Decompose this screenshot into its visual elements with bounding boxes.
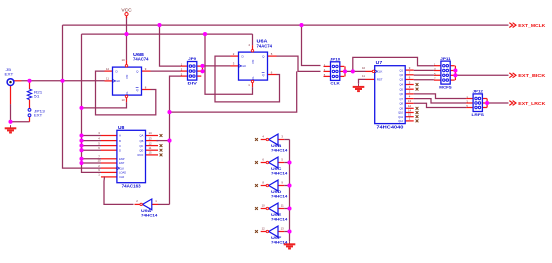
svg-text:10: 10 <box>262 203 266 207</box>
svg-text:EXT: EXT <box>5 72 14 77</box>
svg-text:JP9: JP9 <box>188 57 196 61</box>
svg-text:74HC14: 74HC14 <box>271 193 288 198</box>
svg-text:RCO: RCO <box>138 153 144 157</box>
svg-text:U8: U8 <box>118 125 125 130</box>
svg-text:VCC: VCC <box>121 7 131 12</box>
svg-text:LRFS: LRFS <box>472 112 485 117</box>
svg-text:12: 12 <box>262 226 266 230</box>
svg-text:74HC14: 74HC14 <box>271 216 288 221</box>
svg-text:51: 51 <box>34 95 39 99</box>
svg-text:CLK: CLK <box>241 64 247 68</box>
svg-text:11: 11 <box>362 74 365 78</box>
svg-text:QC: QC <box>139 144 143 148</box>
svg-text:PR: PR <box>251 60 255 64</box>
svg-text:10: 10 <box>97 159 101 163</box>
svg-text:JP10: JP10 <box>330 58 341 62</box>
svg-text:EXT_BICK: EXT_BICK <box>518 73 546 78</box>
svg-text:QA: QA <box>140 134 144 138</box>
svg-text:74HC14: 74HC14 <box>271 147 288 152</box>
svg-text:LOAD: LOAD <box>119 171 126 175</box>
svg-text:CLK: CLK <box>330 81 339 86</box>
svg-text:13: 13 <box>281 226 285 230</box>
svg-text:MCFS: MCFS <box>439 84 452 89</box>
svg-text:10: 10 <box>362 66 366 70</box>
svg-text:RST: RST <box>377 78 383 82</box>
svg-text:JP11: JP11 <box>440 57 451 61</box>
svg-text:Q12: Q12 <box>398 119 403 123</box>
svg-text:13: 13 <box>148 136 152 140</box>
svg-text:QB: QB <box>140 139 144 143</box>
svg-text:CLR: CLR <box>119 175 124 179</box>
svg-text:13: 13 <box>121 98 125 102</box>
svg-text:CLK: CLK <box>377 70 383 74</box>
svg-text:PR: PR <box>125 75 129 79</box>
svg-text:74AC74: 74AC74 <box>133 57 149 62</box>
svg-text:CLK: CLK <box>119 166 124 170</box>
svg-text:Q8: Q8 <box>400 102 404 106</box>
svg-text:74HC14: 74HC14 <box>271 239 288 244</box>
svg-text:11: 11 <box>281 203 284 207</box>
svg-text:JP12: JP12 <box>473 90 484 94</box>
svg-text:12: 12 <box>148 141 152 145</box>
svg-text:14: 14 <box>148 131 152 135</box>
svg-text:74HC14: 74HC14 <box>141 212 158 217</box>
svg-text:74AC163: 74AC163 <box>122 183 142 188</box>
svg-text:CL: CL <box>125 91 129 95</box>
svg-text:10: 10 <box>122 58 126 62</box>
svg-text:11: 11 <box>149 146 152 150</box>
svg-text:ENT: ENT <box>119 161 125 165</box>
svg-text:CLK: CLK <box>115 79 121 83</box>
svg-text:15: 15 <box>148 151 152 155</box>
svg-text:QD: QD <box>139 148 143 152</box>
svg-text:11: 11 <box>106 77 109 81</box>
svg-text:Q3: Q3 <box>400 78 404 82</box>
svg-text:DIV: DIV <box>188 80 198 85</box>
svg-text:Q1: Q1 <box>400 68 404 72</box>
svg-text:Q11: Q11 <box>398 115 403 119</box>
svg-text:74HC4040: 74HC4040 <box>376 125 404 130</box>
svg-text:Q6: Q6 <box>400 92 404 96</box>
svg-text:ENP: ENP <box>119 157 125 161</box>
svg-text:Q10: Q10 <box>398 111 403 115</box>
svg-text:12: 12 <box>106 67 110 71</box>
svg-text:CL: CL <box>251 76 255 80</box>
svg-text:EXT: EXT <box>34 114 43 118</box>
svg-text:U7: U7 <box>376 60 383 65</box>
svg-text:74AC74: 74AC74 <box>257 43 273 48</box>
svg-text:13: 13 <box>408 99 412 103</box>
svg-text:Q4: Q4 <box>400 83 404 87</box>
svg-text:Q5: Q5 <box>400 87 404 91</box>
svg-text:A: A <box>119 134 121 138</box>
svg-text:Q7: Q7 <box>400 97 404 101</box>
svg-text:Q9: Q9 <box>400 107 404 111</box>
svg-text:74HC14: 74HC14 <box>271 170 288 175</box>
svg-text:C: C <box>119 144 121 148</box>
svg-text:EXT_LRCK: EXT_LRCK <box>518 101 546 106</box>
svg-text:D: D <box>119 148 121 152</box>
svg-text:B: B <box>119 139 121 143</box>
svg-text:EXT_MCLK: EXT_MCLK <box>518 23 546 28</box>
svg-text:Q2: Q2 <box>400 73 404 77</box>
